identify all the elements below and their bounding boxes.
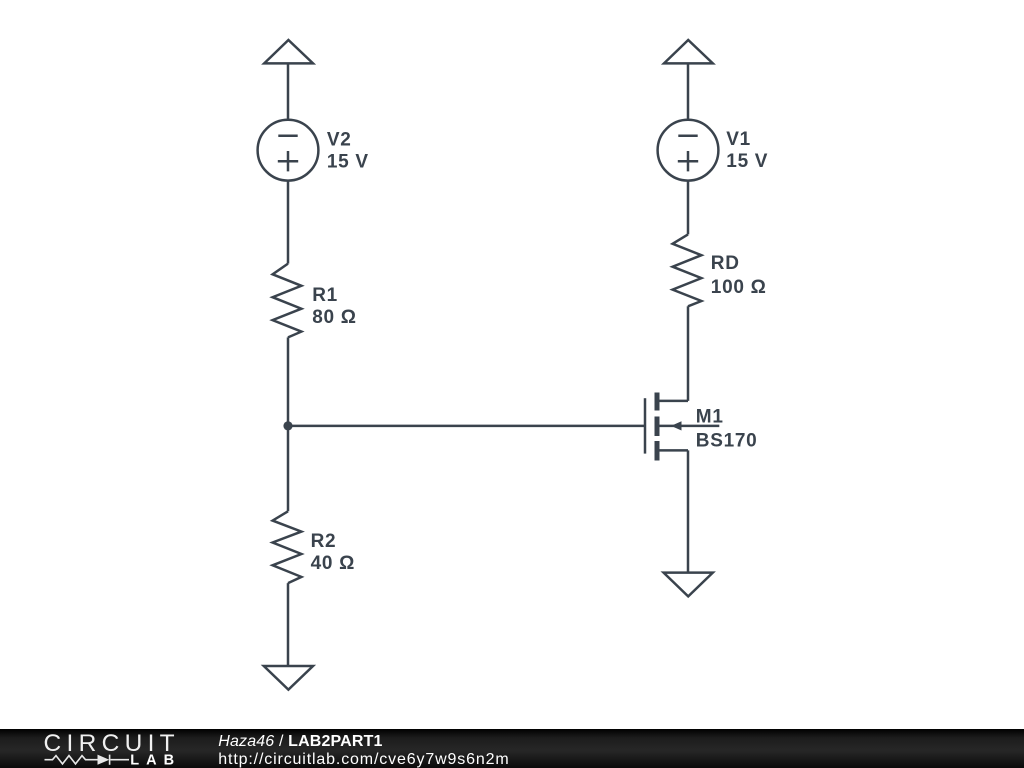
- svg-text:R2: R2: [311, 531, 337, 552]
- svg-text:R1: R1: [312, 285, 338, 306]
- svg-text:15 V: 15 V: [726, 151, 768, 172]
- svg-text:100 Ω: 100 Ω: [711, 277, 767, 298]
- svg-text:RD: RD: [711, 253, 740, 274]
- svg-text:LAB: LAB: [130, 753, 181, 768]
- svg-text:V2: V2: [327, 129, 352, 150]
- svg-text:15 V: 15 V: [327, 151, 369, 172]
- svg-text:80 Ω: 80 Ω: [312, 307, 356, 328]
- svg-text:V1: V1: [726, 129, 751, 150]
- svg-text:BS170: BS170: [696, 431, 758, 452]
- svg-text:http://circuitlab.com/cve6y7w9: http://circuitlab.com/cve6y7w9s6n2m: [218, 751, 509, 768]
- svg-text:M1: M1: [696, 407, 724, 428]
- svg-text:40 Ω: 40 Ω: [311, 553, 355, 574]
- svg-text:Haza46 / LAB2PART1: Haza46 / LAB2PART1: [218, 733, 382, 750]
